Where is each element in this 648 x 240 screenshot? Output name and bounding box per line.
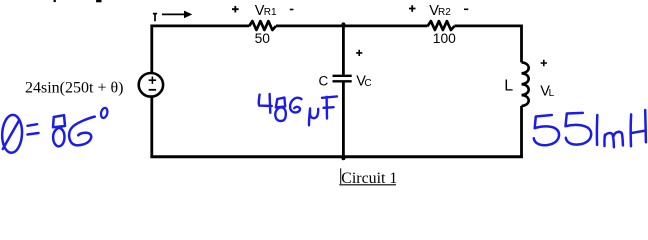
label + of VR1 [232,6,239,13]
svg-text:50: 50 [255,31,271,46]
handwritten 5 second of 551 [566,113,592,145]
caption underline [339,184,396,186]
wire left vertical upper [150,25,153,74]
svg-text:C: C [319,73,329,88]
text fragment cut off at top edge 1 [54,0,56,2]
handwritten H of mH [631,110,646,146]
source minus sign [149,89,156,91]
label + of VR2 [409,5,416,12]
resistor R2 [428,21,455,30]
label - of VR2 [464,8,468,10]
node junction bottom [341,156,345,160]
label I [153,13,157,21]
text cursor before caption [340,168,342,184]
node junction top [342,22,346,26]
handwritten 5 first of 551 [534,115,559,145]
handwritten m of mH [604,132,622,147]
voltage source V1 [139,73,163,97]
svg-text:24sin(250t + θ): 24sin(250t + θ) [25,80,123,97]
handwritten theta symbol [1,114,23,153]
label + of VC [356,50,362,56]
wire capacitor branch lower [342,82,345,158]
svg-text:R2: R2 [438,7,451,18]
handwritten F of uF [322,96,337,118]
svg-text:100: 100 [433,31,456,46]
label - of VR1 [290,9,294,11]
text fragment cut off at top edge 2 [96,0,101,2]
handwritten 1 of 551 [596,115,599,145]
svg-text:C: C [364,78,371,89]
wire top right horizontal [455,24,522,27]
wire capacitor branch upper [342,25,345,75]
handwritten 6 of 486 [290,98,301,113]
handwritten equals sign [28,124,39,134]
capacitor C plates [333,76,352,82]
inductor L coil [522,62,529,106]
label + of VL [541,60,547,66]
wire top middle horizontal [276,24,428,27]
handwritten 8 of 86 [53,115,65,146]
svg-text:R1: R1 [264,7,277,18]
wire bottom horizontal [150,155,523,158]
wire right vertical upper [520,25,523,63]
svg-text:L: L [549,88,555,99]
handwritten 6 of 86 [69,117,95,146]
wire top left horizontal [150,24,249,27]
resistor R1 [249,21,276,30]
current arrow I [162,13,185,15]
handwritten 4 of 486 [259,94,272,113]
wire right vertical lower [520,106,523,158]
wire left vertical lower [150,97,153,158]
svg-text:L: L [504,78,513,95]
handwritten degree mark [100,107,108,118]
handwritten mu [309,109,318,126]
handwritten 8 of 486 [275,98,286,121]
source plus sign [149,77,156,84]
